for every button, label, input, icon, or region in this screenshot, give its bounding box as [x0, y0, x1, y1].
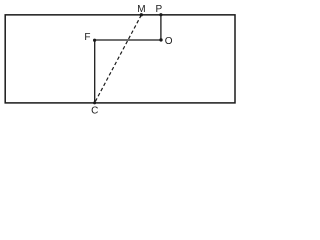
- svg-text:O: O: [165, 36, 173, 47]
- node F: [93, 39, 96, 42]
- svg-text:P: P: [156, 4, 163, 15]
- outer rectangle: [5, 15, 235, 103]
- svg-text:M: M: [137, 4, 145, 15]
- svg-text:C: C: [91, 105, 98, 116]
- wire P-O vertical: [160, 15, 162, 40]
- dashed line M-C: [95, 15, 142, 103]
- node O: [159, 38, 162, 41]
- node M: [140, 13, 143, 16]
- wire F-O horizontal: [95, 39, 161, 41]
- node P: [159, 13, 162, 16]
- node C: [93, 101, 96, 104]
- wire F-C vertical: [94, 40, 96, 103]
- svg-text:F: F: [84, 32, 90, 43]
